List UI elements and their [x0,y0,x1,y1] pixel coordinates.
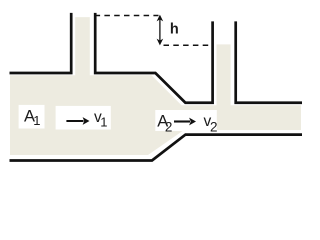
svg-text:1: 1 [100,115,107,130]
svg-text:2: 2 [210,120,218,135]
svg-text:1: 1 [33,113,40,128]
svg-text:2: 2 [165,119,173,134]
svg-text:h: h [170,22,179,38]
